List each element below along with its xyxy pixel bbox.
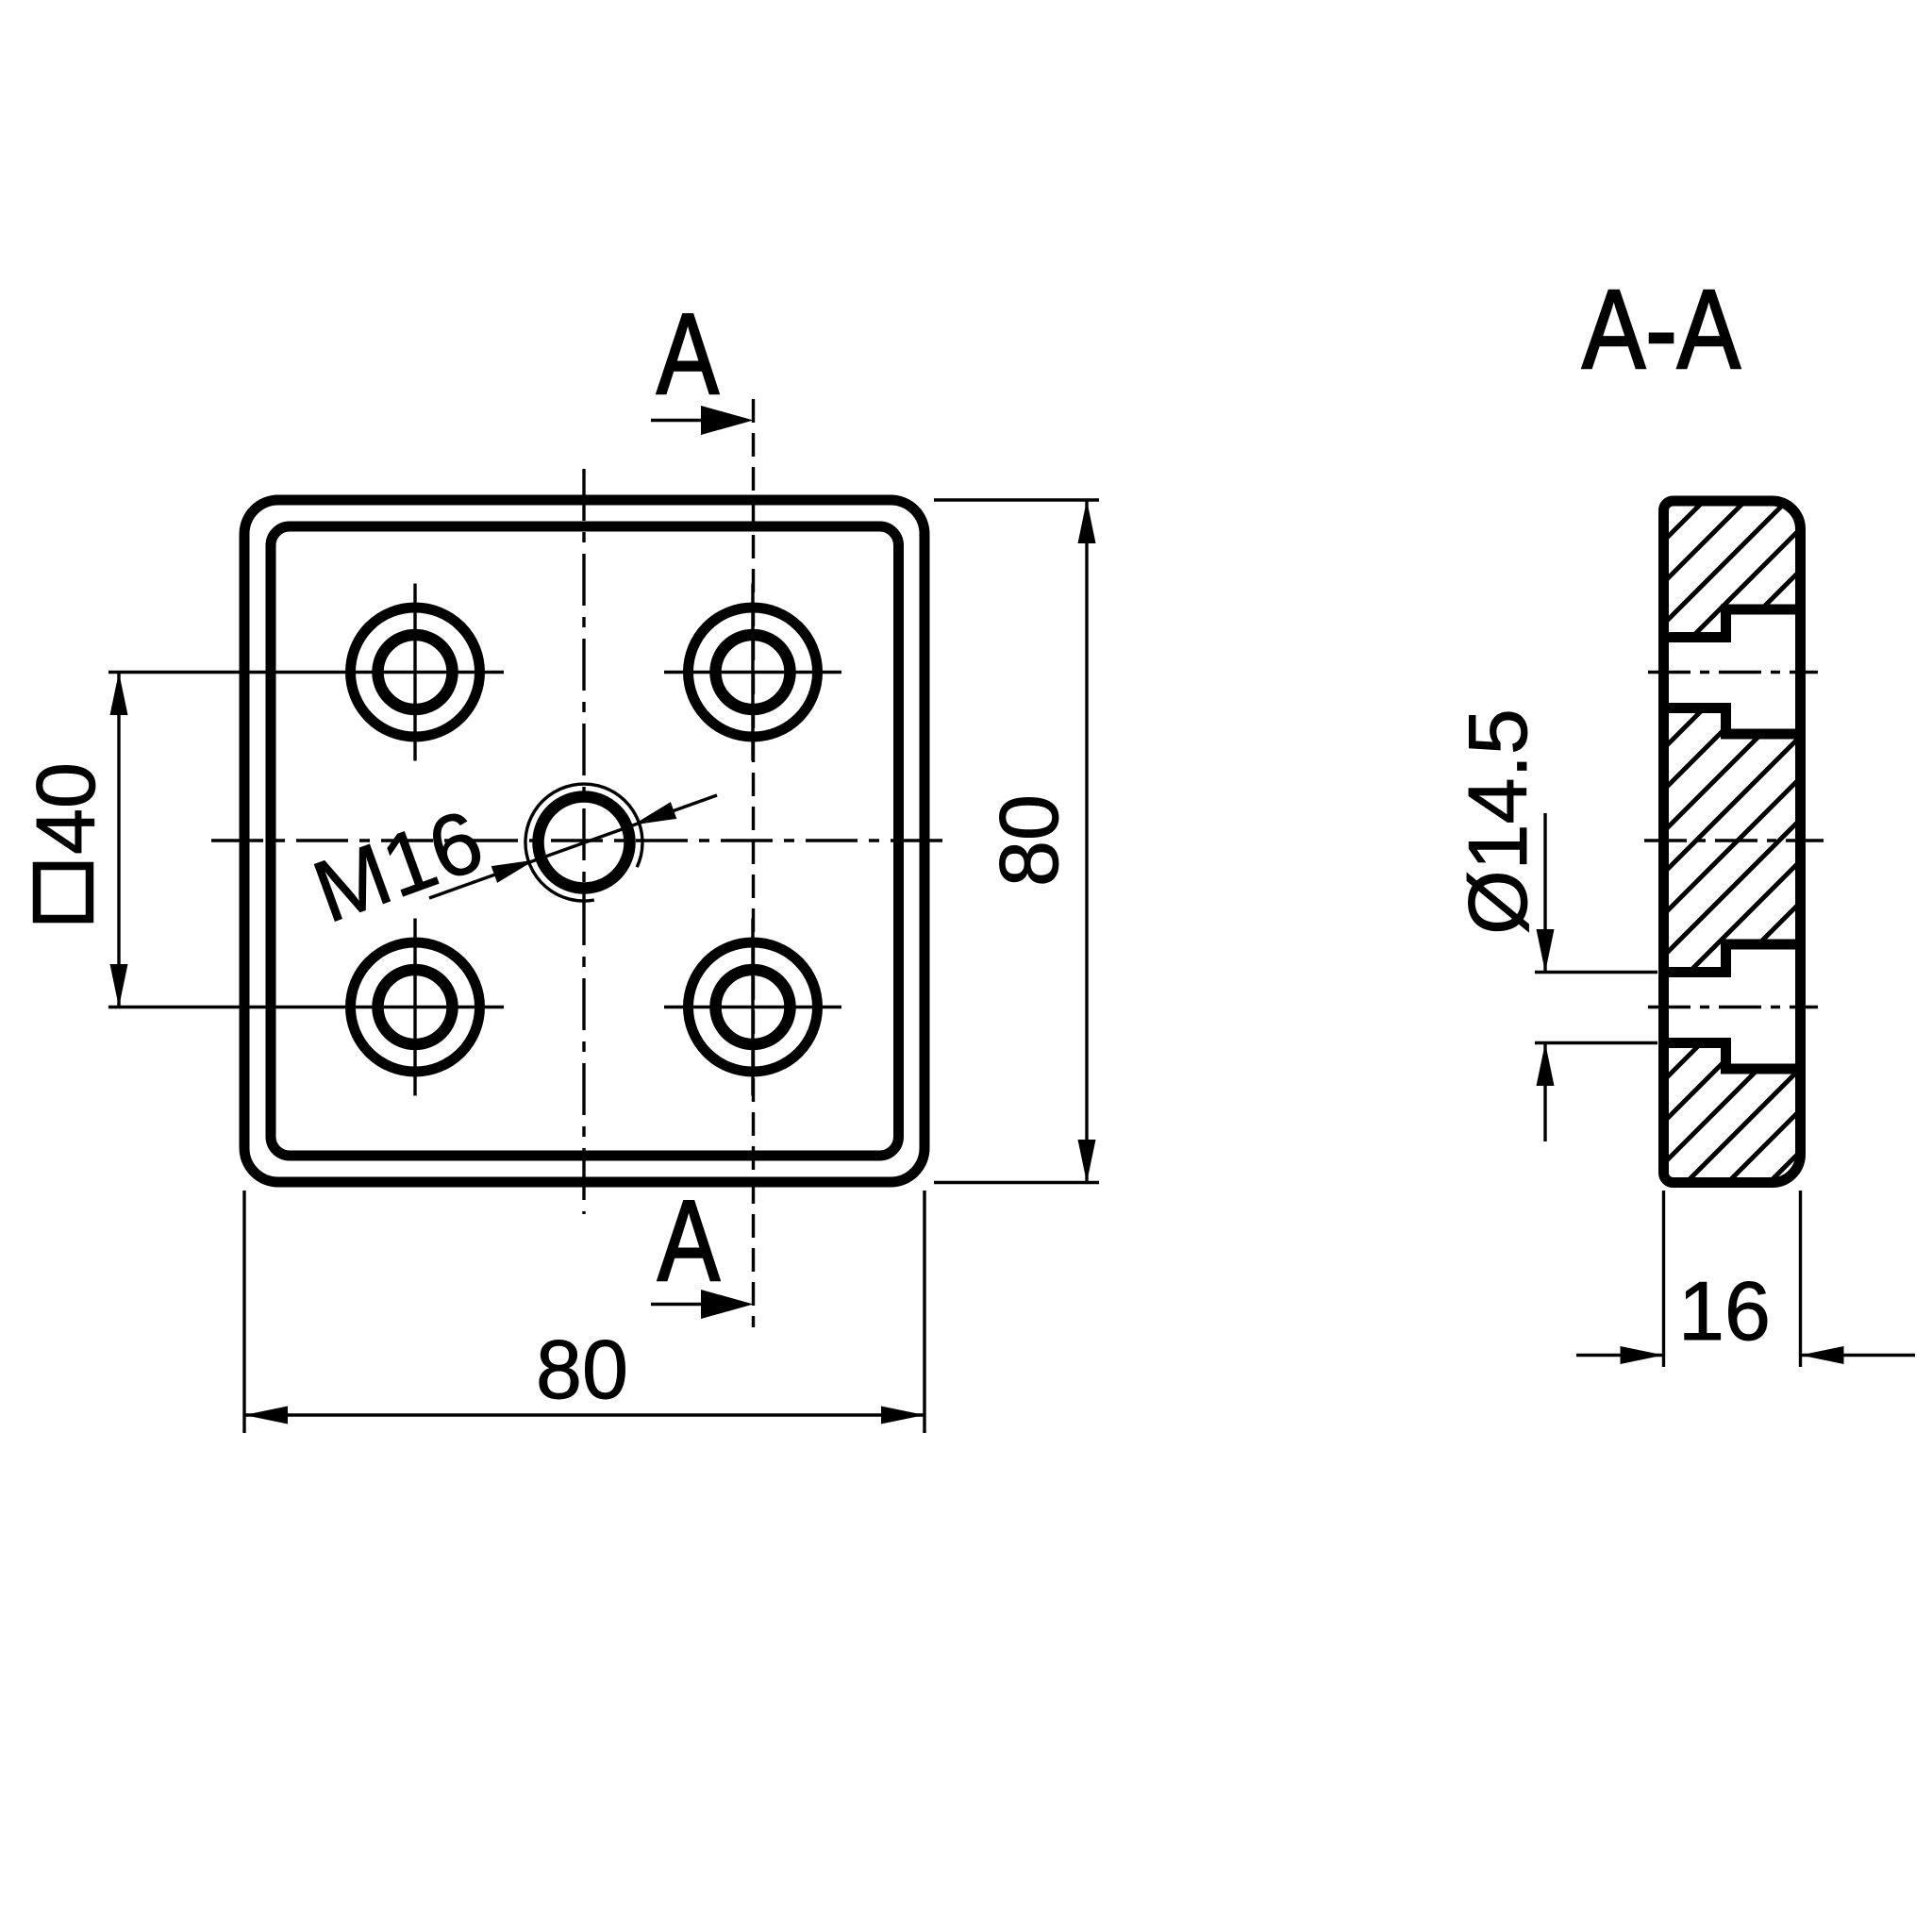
svg-text:80: 80: [982, 794, 1075, 887]
svg-text:A: A: [658, 1176, 721, 1305]
svg-text:16: 16: [1678, 1264, 1771, 1357]
svg-text:Ø14.5: Ø14.5: [1451, 708, 1544, 935]
svg-text:40: 40: [19, 762, 112, 855]
svg-text:A: A: [657, 290, 720, 418]
svg-text:A-A: A-A: [1582, 267, 1741, 392]
svg-text:80: 80: [536, 1323, 628, 1416]
